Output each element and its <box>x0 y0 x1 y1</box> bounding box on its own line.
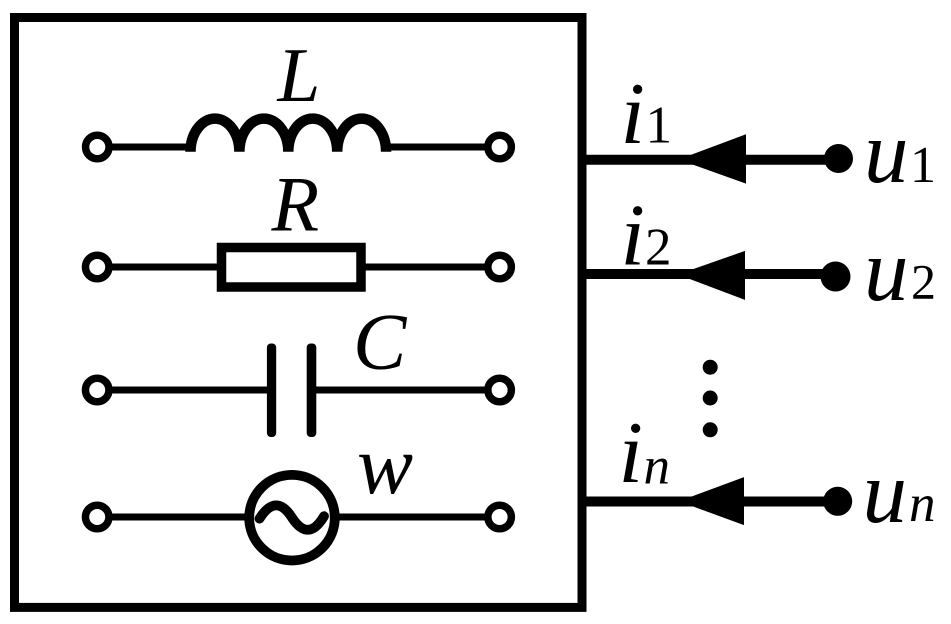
svg-text:1: 1 <box>910 137 936 194</box>
capacitor C plate left <box>267 344 276 438</box>
svg-text:n: n <box>644 437 671 495</box>
source w circle <box>249 475 335 561</box>
svg-text:u: u <box>864 222 909 320</box>
svg-text:i: i <box>621 66 645 163</box>
wire row R right <box>350 264 492 271</box>
svg-text:2: 2 <box>911 254 936 310</box>
source w sine <box>260 505 325 529</box>
arrow i2 <box>678 251 745 300</box>
wire row w left <box>105 514 260 521</box>
svg-text:i: i <box>621 188 645 285</box>
network box <box>15 18 583 608</box>
svg-text:n: n <box>909 475 936 533</box>
node dot u2 <box>821 262 851 292</box>
wire row w right <box>325 514 492 521</box>
svg-text:L: L <box>277 32 321 118</box>
svg-text:u: u <box>864 104 909 202</box>
inductor L <box>191 119 387 152</box>
terminal row w right <box>488 505 512 529</box>
capacitor C plate right <box>307 344 317 438</box>
arrow i1 <box>679 134 747 183</box>
svg-text:R: R <box>271 160 320 247</box>
arrow in <box>679 477 744 525</box>
wire row L left <box>105 144 195 151</box>
terminal row L left <box>86 135 110 159</box>
terminal row R left <box>85 255 109 279</box>
ellipsis dots <box>703 360 718 375</box>
node dot u1 <box>824 144 853 173</box>
wire row C right <box>314 387 492 394</box>
terminal row R right <box>488 255 512 279</box>
svg-text:i: i <box>619 405 643 502</box>
resistor R <box>222 248 362 288</box>
wire in <box>578 497 838 507</box>
wire row R left <box>105 264 240 271</box>
terminal row C right <box>488 378 512 402</box>
wire i2 <box>578 269 836 279</box>
wire row C left <box>105 387 268 394</box>
wire i1 <box>578 155 838 165</box>
terminal row w left <box>85 505 109 529</box>
svg-text:w: w <box>357 419 413 512</box>
wire row L right <box>382 144 492 151</box>
svg-text:C: C <box>353 299 408 387</box>
svg-text:u: u <box>863 444 908 542</box>
terminal row L right <box>488 135 512 159</box>
svg-text:2: 2 <box>645 219 672 277</box>
terminal row C left <box>85 378 109 402</box>
svg-text:1: 1 <box>646 97 673 155</box>
node dot un <box>823 487 852 516</box>
